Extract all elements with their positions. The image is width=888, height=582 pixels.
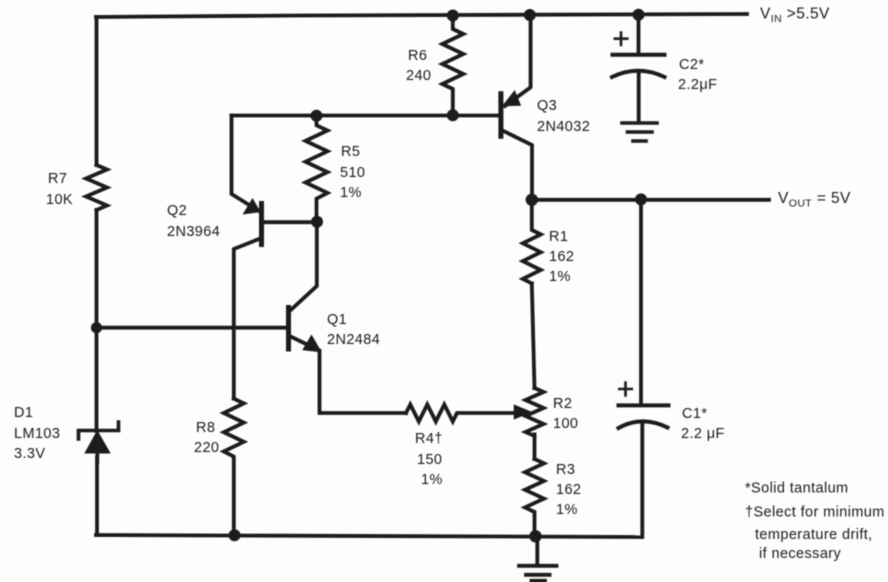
- wire top rail VIN: [96, 14, 747, 17]
- Q2 base wire to R5 node: [262, 220, 317, 224]
- note select for minimum temperature drift: [745, 505, 885, 563]
- resistor R4: [406, 405, 517, 422]
- Q1 emitter wire: [291, 337, 407, 414]
- Q2 emitter wire from mid rail: [232, 116, 259, 211]
- wire Q3 collector to VOUT rail: [532, 198, 769, 202]
- note solid tantalum: [745, 481, 849, 497]
- svg-text:†Select for minimum: †Select for minimum: [745, 505, 885, 521]
- R4 tap arrow into R2: [515, 406, 531, 419]
- ground under C2: [622, 123, 657, 141]
- resistor R7: [86, 165, 107, 210]
- svg-text:temperature drift,: temperature drift,: [755, 527, 873, 543]
- svg-text:R2: R2: [553, 396, 572, 412]
- svg-text:220: 220: [194, 440, 219, 456]
- junction dot mid rail R5 top: [311, 110, 323, 122]
- wire left vertical from top rail to R7: [95, 17, 99, 165]
- label R3 162 1%: [556, 462, 581, 518]
- C1 plus sign: [619, 383, 632, 396]
- svg-text:D1: D1: [14, 405, 33, 421]
- svg-text:LM103: LM103: [14, 426, 60, 442]
- label R6 240: [406, 48, 431, 84]
- svg-text:150: 150: [417, 452, 442, 468]
- junction dot VOUT R1: [526, 194, 538, 206]
- svg-text:2.2μF: 2.2μF: [678, 77, 717, 93]
- resistor R5: [306, 116, 328, 222]
- wire R1 to R2: [532, 284, 535, 389]
- wire node to Q1 collector: [291, 222, 317, 310]
- svg-text:Q3: Q3: [537, 98, 557, 114]
- label C2 2.2uF: [678, 57, 717, 93]
- label R7 10K: [46, 171, 73, 208]
- svg-text:162: 162: [556, 482, 581, 498]
- C2 plus sign: [615, 33, 628, 46]
- svg-text:2N4032: 2N4032: [537, 119, 590, 135]
- junction dot bottom rail R3/ground: [529, 530, 541, 542]
- svg-text:2.2 μF: 2.2 μF: [681, 426, 725, 442]
- svg-text:1%: 1%: [421, 472, 443, 488]
- svg-text:VOUT = 5V: VOUT = 5V: [778, 190, 851, 210]
- svg-text:3.3V: 3.3V: [14, 446, 45, 462]
- svg-text:1%: 1%: [556, 502, 578, 518]
- svg-text:240: 240: [406, 68, 431, 84]
- Q2 collector wire down: [234, 238, 262, 399]
- svg-text:R1: R1: [549, 229, 568, 245]
- svg-text:1%: 1%: [340, 185, 362, 201]
- label R4 150 1%: [415, 431, 443, 488]
- capacitor C2: [612, 15, 665, 122]
- label C1 2.2uF: [681, 406, 725, 442]
- wire bottom rail ground net: [96, 535, 642, 537]
- svg-text:Q1: Q1: [327, 312, 347, 328]
- svg-text:1%: 1%: [549, 269, 571, 285]
- svg-text:100: 100: [553, 416, 578, 432]
- transistor Q1 2N2484: [289, 308, 407, 414]
- svg-text:R4†: R4†: [415, 431, 443, 447]
- Q3 emitter wire from top rail: [505, 15, 531, 107]
- svg-text:Q2: Q2: [167, 203, 187, 219]
- wire left vertical D1 to bottom rail: [95, 458, 99, 535]
- svg-text:10K: 10K: [46, 192, 73, 208]
- Q2 base bar: [259, 204, 264, 245]
- junction dot bottom rail R8: [229, 529, 241, 541]
- resistor R2: [526, 388, 544, 436]
- Q3 collector wire: [503, 131, 533, 200]
- wire mid rail (Q3 base / R5 / R6 / Q2 emitter net): [232, 114, 499, 118]
- resistor R1: [523, 200, 541, 284]
- ground main at bottom rail: [519, 536, 557, 581]
- diode D1 zener LM103: [79, 422, 119, 462]
- svg-text:162: 162: [549, 249, 574, 265]
- svg-text:510: 510: [340, 165, 365, 181]
- resistor R8: [224, 399, 244, 535]
- label D1 LM103 3.3V: [14, 405, 60, 462]
- label R1 162 1%: [549, 229, 574, 285]
- junction dot R5 bottom / Q2 base / Q1 collector node: [311, 216, 323, 228]
- svg-text:if necessary: if necessary: [759, 546, 842, 562]
- svg-text:VIN >5.5V: VIN >5.5V: [760, 6, 830, 26]
- Q1 base bar: [286, 308, 291, 350]
- resistor R6: [442, 16, 463, 116]
- transistor Q2 2N3964: [232, 116, 318, 399]
- label R5 510 1%: [340, 144, 365, 201]
- wire R2 to R3: [533, 435, 537, 460]
- Q2 emitter arrow: [244, 200, 260, 214]
- Q3 base bar: [498, 94, 503, 137]
- junction dot top rail Q3 emitter: [524, 9, 536, 21]
- label net VIN: [760, 6, 830, 26]
- svg-text:*Solid tantalum: *Solid tantalum: [745, 481, 849, 497]
- Q3 emitter arrow: [504, 92, 521, 106]
- junction dot top rail R6: [447, 10, 459, 22]
- svg-text:R5: R5: [341, 144, 360, 160]
- svg-text:2N3964: 2N3964: [167, 224, 220, 240]
- wire Q1 base net from left rail: [97, 326, 287, 330]
- label Q1 2N2484: [327, 312, 380, 348]
- wire left vertical R7 to D1: [95, 210, 99, 431]
- junction dot left rail / Q1 base: [91, 322, 102, 333]
- svg-text:2N2484: 2N2484: [327, 332, 380, 348]
- label Q3 2N4032: [537, 98, 590, 135]
- svg-text:C2*: C2*: [679, 57, 704, 73]
- junction dot VOUT C1: [635, 193, 647, 205]
- label R8 220: [194, 420, 219, 456]
- capacitor C1: [619, 199, 669, 537]
- svg-text:R6: R6: [408, 48, 427, 64]
- junction dot mid rail R6 bottom: [447, 109, 459, 121]
- label net VOUT: [778, 190, 851, 210]
- Q1 emitter arrow: [304, 336, 321, 352]
- label R2 100: [553, 396, 578, 432]
- svg-text:R7: R7: [48, 171, 67, 187]
- svg-text:C1*: C1*: [682, 406, 707, 422]
- junction dot top rail C2: [633, 9, 645, 21]
- transistor Q3 2N4032: [501, 15, 532, 200]
- svg-text:R3: R3: [556, 462, 575, 478]
- resistor R3: [525, 459, 544, 536]
- label Q2 2N3964: [167, 203, 220, 240]
- svg-text:R8: R8: [196, 420, 215, 436]
